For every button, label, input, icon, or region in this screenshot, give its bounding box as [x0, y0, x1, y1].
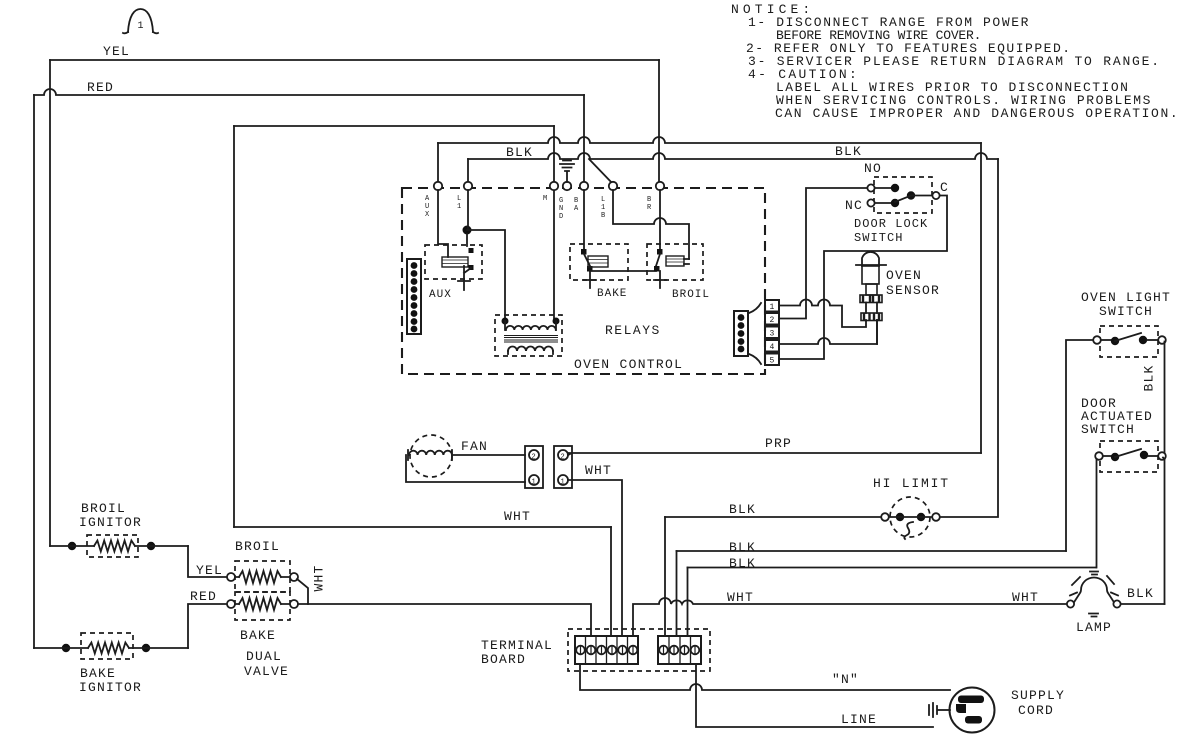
- wire YEL left vertical: [49, 60, 51, 546]
- svg-text:WHT: WHT: [585, 463, 612, 478]
- connector blocks 1-5: [765, 300, 779, 366]
- ground symbol above pin GND: [560, 161, 574, 183]
- svg-text:WHT: WHT: [1012, 590, 1039, 605]
- wire conn box1 to sensor lower block, humps at 806,824: [779, 300, 866, 328]
- svg-text:G: G: [559, 197, 563, 205]
- door lock switch: [845, 161, 949, 245]
- svg-text:U: U: [425, 203, 429, 211]
- svg-text:PRP: PRP: [765, 436, 792, 451]
- notice text block: [731, 2, 1179, 121]
- wire YEL top: [50, 59, 659, 61]
- wire N y=690 with hump at 696: [580, 664, 950, 690]
- svg-text:BLK: BLK: [729, 502, 756, 517]
- svg-text:B: B: [647, 196, 651, 204]
- wire WHT drop to terminal t4: [610, 527, 612, 636]
- svg-text:BLK: BLK: [729, 556, 756, 571]
- svg-text:N: N: [559, 205, 563, 213]
- note symbol triangle 1: [123, 9, 158, 33]
- svg-text:1: 1: [138, 21, 144, 32]
- svg-text:BAKE: BAKE: [80, 666, 116, 681]
- pin L1: [464, 182, 472, 190]
- svg-text:B: B: [601, 212, 605, 220]
- wire YEL drop to pin BR: [658, 60, 660, 186]
- oven sensor: [856, 252, 940, 321]
- supply cord plug: [929, 688, 1065, 733]
- svg-text:BLK: BLK: [1127, 586, 1154, 601]
- svg-text:BOARD: BOARD: [481, 652, 526, 667]
- svg-text:C: C: [940, 180, 949, 195]
- svg-text:4: 4: [770, 343, 775, 352]
- pin AUX: [434, 182, 442, 190]
- wire M left vertical x=234: [233, 126, 235, 527]
- wire YEL jog to broil valve: [188, 546, 227, 577]
- wire WHT fan connector t1 to terminal t5: [568, 480, 622, 636]
- relay BAKE: [570, 190, 656, 300]
- wire door actuated right to lamp riser: [1163, 458, 1165, 460]
- dual valve bake element: [227, 592, 298, 679]
- connector strip left (9 pin): [407, 259, 421, 334]
- relay BROIL: [647, 190, 710, 301]
- oven light switch: [1081, 290, 1171, 357]
- svg-text:1: 1: [561, 479, 565, 487]
- wire BLK lamp to right riser: [1121, 603, 1165, 605]
- wire BLK line B y=159 from L1 pin, humps at 554,584,659,981: [468, 153, 998, 159]
- connector strip right (5 pin): [734, 303, 761, 364]
- svg-text:LINE: LINE: [841, 712, 877, 727]
- svg-text:SWITCH: SWITCH: [854, 231, 904, 245]
- svg-text:YEL: YEL: [196, 563, 223, 578]
- svg-text:DOOR LOCK: DOOR LOCK: [854, 217, 928, 231]
- svg-text:SENSOR: SENSOR: [886, 283, 940, 298]
- svg-text:BLK: BLK: [835, 144, 862, 159]
- svg-text:DUAL: DUAL: [246, 649, 282, 664]
- svg-text:YEL: YEL: [103, 44, 130, 59]
- wire PRP y=453 from fan connector: [568, 452, 981, 454]
- terminal board: [481, 629, 710, 671]
- pin BR: [656, 182, 664, 190]
- wire oven light left to BLK2: [1066, 340, 1093, 551]
- node junction L1 dot: [463, 226, 472, 235]
- broil ignitor: [50, 501, 188, 557]
- transformer T1: [495, 315, 562, 356]
- door actuated switch: [1081, 396, 1166, 472]
- svg-text:VALVE: VALVE: [244, 664, 289, 679]
- svg-text:3: 3: [770, 330, 775, 339]
- svg-text:OVEN LIGHT: OVEN LIGHT: [1081, 290, 1171, 305]
- svg-text:OVEN: OVEN: [886, 268, 922, 283]
- svg-text:RED: RED: [87, 80, 114, 95]
- wire conn box2 to door lock NO: [779, 188, 867, 319]
- svg-text:WHT: WHT: [727, 590, 754, 605]
- svg-text:2: 2: [532, 454, 536, 462]
- svg-text:HI LIMIT: HI LIMIT: [873, 476, 950, 491]
- hi limit switch: [873, 476, 950, 539]
- wire AUX pin riser: [437, 143, 439, 186]
- wire WHT mid-left y=527: [234, 526, 611, 528]
- svg-text:CORD: CORD: [1018, 703, 1054, 718]
- svg-text:FAN: FAN: [461, 439, 488, 454]
- wire WHT valve outputs joined: [297, 579, 308, 604]
- svg-text:SUPPLY: SUPPLY: [1011, 688, 1065, 703]
- svg-text:BLK: BLK: [1141, 364, 1156, 391]
- pin L1B: [609, 182, 617, 190]
- svg-text:5: 5: [770, 357, 775, 366]
- svg-text:BAKE: BAKE: [597, 288, 627, 300]
- svg-text:SWITCH: SWITCH: [1099, 304, 1153, 319]
- svg-text:BROIL: BROIL: [672, 289, 710, 301]
- wire BLK hi-limit to terminal t1r y=517: [665, 516, 881, 518]
- wire L1 pin down to junction: [467, 190, 469, 230]
- pin GND: [563, 182, 571, 190]
- wire diagonal branch to pin L1B: [589, 159, 613, 184]
- wire sensor right pin down to box4 line: [876, 320, 878, 344]
- pin M: [550, 182, 558, 190]
- svg-text:CAN CAUSE IMPROPER AND DANGERO: CAN CAUSE IMPROPER AND DANGEROUS OPERATI…: [775, 106, 1179, 121]
- lamp: [1067, 572, 1121, 636]
- fan connector block right: [554, 446, 572, 488]
- svg-text:L: L: [457, 195, 461, 203]
- svg-text:1: 1: [532, 479, 536, 487]
- svg-text:OVEN CONTROL: OVEN CONTROL: [574, 357, 683, 372]
- svg-text:NO: NO: [864, 161, 882, 176]
- svg-text:D: D: [559, 213, 563, 221]
- wire conn box5 to door lock C: [779, 196, 947, 360]
- wire LINE y=727: [696, 664, 933, 727]
- wire fan connector t2 to PRP: [568, 453, 572, 455]
- svg-text:RELAYS: RELAYS: [605, 323, 661, 338]
- wire BLK line A y=143 from AUX pin, humps at 554,584,659: [438, 137, 981, 143]
- wire RED top (hump over YEL vertical at x=50): [34, 89, 584, 95]
- svg-text:WHT: WHT: [504, 509, 531, 524]
- wire conn box4 to sensor lower block right pin, hump at 824: [779, 320, 877, 344]
- wire junction to transformer primary left: [467, 230, 505, 321]
- wire L1 pin riser: [467, 159, 469, 186]
- wire RED jog to bake valve: [188, 604, 227, 648]
- fan connector block left: [525, 446, 543, 488]
- svg-text:B: B: [574, 197, 578, 205]
- wire right riser oven light to lamp: [1164, 342, 1166, 605]
- fan motor: [408, 435, 488, 477]
- wire BLK right vertical x=998 to HI LIMIT: [940, 159, 998, 517]
- svg-text:1: 1: [601, 204, 605, 212]
- wire door actuated left down to BLK3: [1096, 459, 1098, 568]
- wire WHT valves to terminal t2: [308, 604, 591, 636]
- svg-text:LAMP: LAMP: [1076, 620, 1112, 635]
- svg-text:WHT: WHT: [311, 564, 326, 591]
- wire fan coil left down and to connector t1: [406, 455, 525, 482]
- wire WHT y=604 to lamp, humps at 665,676,687: [633, 598, 1066, 636]
- svg-text:BROIL: BROIL: [81, 501, 126, 516]
- relay AUX: [425, 190, 482, 301]
- svg-text:SWITCH: SWITCH: [1081, 422, 1135, 437]
- svg-text:"N": "N": [832, 672, 859, 687]
- svg-text:IGNITOR: IGNITOR: [79, 680, 142, 695]
- svg-text:BROIL: BROIL: [235, 539, 280, 554]
- wire M vertical x=554 (pin M to transformer): [553, 126, 555, 321]
- svg-text:L: L: [601, 196, 605, 204]
- wire BLK2 y=551 oven light to terminal t2r: [677, 550, 1067, 552]
- wire BLK3 y=567 door switch to terminal t3r: [688, 567, 1097, 569]
- oven control dashed box: [402, 188, 765, 374]
- svg-text:1: 1: [770, 303, 775, 312]
- svg-text:BLK: BLK: [506, 145, 533, 160]
- wire M to terminal board: top run y=126: [234, 125, 554, 127]
- svg-text:RED: RED: [190, 589, 217, 604]
- dual valve broil element: [227, 539, 298, 592]
- svg-text:NC: NC: [845, 198, 863, 213]
- wire L1B internal run to broil relay: [613, 190, 689, 259]
- wire PRP right vertical x=981: [980, 143, 982, 453]
- wire fan coil right to connector t2: [452, 454, 525, 456]
- svg-text:AUX: AUX: [429, 289, 452, 301]
- svg-text:BAKE: BAKE: [240, 628, 276, 643]
- svg-text:2: 2: [770, 316, 775, 325]
- wire RED left vertical: [33, 95, 35, 648]
- wire RED drop to pin BA: [583, 95, 585, 186]
- bake ignitor: [34, 633, 188, 695]
- svg-text:M: M: [543, 195, 547, 203]
- svg-text:TERMINAL: TERMINAL: [481, 638, 553, 653]
- svg-text:IGNITOR: IGNITOR: [79, 515, 142, 530]
- svg-text:2: 2: [561, 454, 565, 462]
- svg-text:BLK: BLK: [729, 540, 756, 555]
- svg-text:1: 1: [457, 203, 461, 211]
- pin BA: [580, 182, 588, 190]
